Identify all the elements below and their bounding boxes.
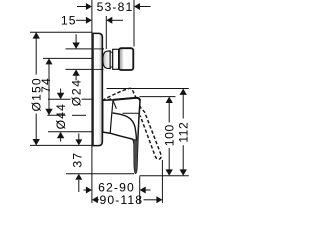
extension line y=114.6 (handle axis), interrupted by Ø44 text (47, 114, 65, 116)
svg-text:Ø44: Ø44 (54, 103, 68, 129)
extension line x=134 (53-81 right) (133, 0, 135, 47)
knob ring (110, 52, 113, 67)
bottom reference line (handle bottom) right part (140, 175, 189, 177)
bottom extension lines (139, 176, 141, 203)
lever head bottom edge (123, 112, 139, 114)
dimension Ø150 (left) (30, 32, 94, 145)
svg-text:100: 100 (163, 124, 177, 146)
svg-text:90-118: 90-118 (99, 193, 143, 207)
dimension 100 (right) (163, 97, 177, 176)
dashed handle lower stub (102, 98, 113, 101)
lever inner slant edge (113, 101, 116, 109)
svg-text:37: 37 (70, 152, 84, 168)
svg-text:Ø24: Ø24 (70, 78, 84, 106)
dimension Ø24 (knob) (66, 34, 105, 106)
dimension 62-90 (bottom row 1) (84, 181, 151, 195)
dimension 53-81 (top row) (77, 0, 151, 14)
wall plate (escutcheon, side view) (93, 33, 102, 145)
extension line x=106.5 (knob front reference) (105, 16, 107, 49)
dimension 15 (second row) (61, 13, 123, 27)
dimension Ø44 (handle escutcheon) (48, 89, 102, 142)
svg-text:53-81: 53-81 (97, 0, 134, 14)
svg-text:74: 74 (39, 77, 53, 93)
extension line x=92 top (wall line, full height) (91, 0, 93, 203)
dimension 112 (right) (176, 89, 190, 176)
knob cap (119, 48, 133, 70)
lever cone junction line (110, 100, 113, 133)
dimension 74 (39, 58, 94, 115)
lever handle (solid) (103, 98, 140, 174)
lever grip shading (lower grip) (134, 139, 138, 173)
svg-text:15: 15 (61, 13, 77, 27)
dashed handle (raised position): upper outline (102, 88, 161, 159)
dimension 37 (bottom left) (66, 134, 134, 193)
lever crease (113, 113, 137, 141)
svg-text:112: 112 (176, 122, 190, 143)
lever head top edge (bold) (113, 98, 140, 101)
knob cylinder (113, 49, 119, 69)
Ø24 extension lines crossing plate (94, 48, 104, 50)
diverter knob: cone at plate (103, 51, 110, 69)
dimension 90-118 (bottom row 2) (92, 193, 162, 207)
right top extension lines (107, 88, 189, 90)
